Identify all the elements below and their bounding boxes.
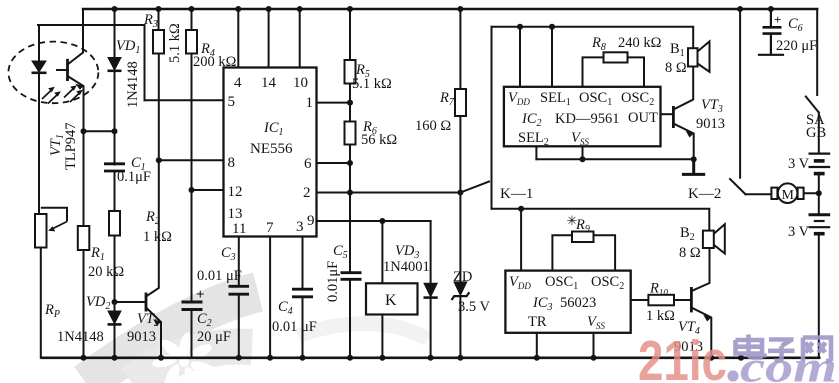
battery GB cell 2 [809, 215, 831, 234]
optocoupler light arrows [42, 85, 83, 103]
wire: top supply bus [83, 8, 817, 10]
wire: Vss ground line [536, 158, 693, 160]
wire: pin 3 / C4 column [302, 237, 304, 358]
node: emitter junction [81, 128, 87, 134]
transistor VT3 base bar [672, 106, 675, 128]
switch K-1 blade [460, 182, 489, 193]
wire: IC2 supply horizontal to B1 [492, 27, 694, 49]
svg-text:K—1: K—1 [500, 186, 533, 202]
svg-text:0.1μF: 0.1μF [117, 169, 151, 185]
svg-text:8: 8 [228, 155, 236, 171]
wire: IC2 SEL1 pin [551, 27, 553, 87]
wire: motor junction [804, 192, 819, 194]
wire: IC3 Vss pin to bus [593, 333, 595, 358]
wire: pin 12 horizontal [192, 189, 224, 191]
wire: K relay drop from pin 9 line [381, 221, 383, 283]
svg-text:3 V: 3 V [788, 156, 810, 172]
wire: VT3 collector to B1 [673, 67, 693, 110]
node: IC2 Vdd rail [517, 24, 523, 30]
node A: K-1 / R7 / ZD [457, 190, 463, 196]
watermark .com dot [727, 370, 738, 381]
svg-text:K: K [385, 292, 397, 309]
svg-text:14: 14 [261, 75, 277, 91]
wire: VD3 column [430, 221, 432, 358]
potentiometer Rp wiper [41, 208, 67, 222]
LED of optocoupler [32, 61, 47, 73]
wire: IC2 OUT to VT3 base [661, 113, 673, 115]
svg-text:TLP947: TLP947 [63, 122, 79, 170]
phototransistor emitter arrow [75, 84, 83, 90]
watermark dianziwang characters [736, 335, 832, 362]
wire: IC3 Vdd pin [520, 209, 522, 271]
wire: top-left horizontal (LED anode to pin5 wire) [38, 24, 145, 26]
svg-text:1N4148: 1N4148 [57, 329, 104, 345]
wire: pin 9 horizontal to VD3 [317, 220, 431, 222]
resistor R2 [109, 211, 120, 236]
svg-text:3: 3 [296, 219, 304, 235]
transistor VT4 base bar [690, 287, 693, 312]
wire: pin 7 column [269, 237, 271, 358]
wire: IC2 Vss pin [582, 146, 584, 159]
capacitor C6 plates [763, 27, 782, 33]
wire: pin 5 horizontal [145, 99, 224, 101]
node: Vss ground line [580, 156, 586, 162]
svg-text:1 kΩ: 1 kΩ [143, 229, 172, 245]
capacitor C2 plates [182, 302, 203, 310]
capacitor C4 plates [292, 289, 313, 297]
wire: VT4 collector to B2 [691, 248, 709, 291]
resistor R10 [648, 295, 674, 306]
svg-text:9013: 9013 [696, 116, 725, 132]
svg-text:5.1 kΩ: 5.1 kΩ [167, 23, 183, 63]
wire: C6 column [759, 9, 783, 55]
svg-text:10: 10 [293, 75, 308, 91]
wire: R1 column [83, 131, 85, 357]
svg-text:NE556: NE556 [250, 141, 293, 157]
svg-text:20 μF: 20 μF [197, 329, 231, 345]
wire: IC1 pin 4 top [237, 9, 239, 68]
svg-text:TR: TR [528, 314, 547, 330]
wire: VT2 emitter [146, 308, 161, 358]
node: pin2 [347, 190, 353, 196]
svg-text:2: 2 [303, 185, 311, 201]
svg-text:KD—9561: KD—9561 [555, 111, 619, 127]
wire: LED/Rp left column [39, 25, 41, 358]
svg-text:56 kΩ: 56 kΩ [361, 132, 397, 148]
wire: IC2/IC3 supply rail vertical [491, 27, 493, 209]
svg-text:4: 4 [234, 75, 242, 91]
IC1 pin numbers [228, 75, 315, 237]
wire: VT3 emitter to ground [673, 124, 693, 160]
node: pin12 / R4 / C2 [189, 187, 195, 193]
wire: R3 column [158, 9, 160, 160]
resistor R9 [572, 232, 594, 243]
wire: IC3 supply horizontal to B2 [492, 209, 710, 231]
wire: battery1 to motor junction [818, 175, 820, 214]
svg-text:8 Ω: 8 Ω [679, 245, 701, 261]
wire: IC2 Vdd pin [519, 27, 521, 87]
svg-text:7: 7 [266, 220, 274, 236]
wire: phototransistor emitter down [68, 76, 84, 131]
diode VD3 [424, 283, 438, 297]
node: VT2 base [112, 299, 118, 305]
svg-text:GB: GB [806, 125, 826, 141]
speaker B2 [703, 224, 725, 253]
wire: emitter junction horizontal [84, 130, 115, 132]
svg-text:+: + [774, 12, 781, 27]
svg-text:1N4148: 1N4148 [125, 61, 141, 108]
battery GB cell 1 [809, 154, 831, 174]
node: pin9 / K relay [379, 218, 385, 224]
wire: IC1 pin 10 top [299, 9, 301, 68]
capacitor C1 [104, 164, 125, 171]
wire: pin 8 horizontal [159, 159, 224, 161]
svg-text:6: 6 [304, 156, 312, 172]
svg-text:K—2: K—2 [688, 186, 721, 202]
wire: IC3 TR pin to bus [536, 333, 538, 358]
node: pin6 [347, 160, 353, 166]
wire: VT2 collector [146, 160, 159, 296]
svg-text:9013: 9013 [127, 329, 156, 345]
ground symbol [683, 159, 703, 174]
svg-text:com: com [740, 343, 837, 383]
wire: right rail top to SA switch [816, 9, 818, 95]
switch SA blade [806, 97, 819, 113]
svg-text:0.01 μF: 0.01 μF [197, 268, 242, 284]
wire: IC3 OSC1 pin and R9 loop [552, 235, 615, 270]
resistor R5 [345, 60, 356, 84]
phototransistor VT1 base bar [66, 59, 69, 81]
svg-text:ZD: ZD [453, 269, 472, 285]
resistor R7 [455, 89, 466, 116]
wire: pin 11 / C3 column [238, 237, 240, 358]
wire: phototransistor collector to top bus [68, 9, 84, 65]
wire: vertical down to pin 5 [144, 25, 146, 100]
node: pin8 / R3 / VT2 collector [156, 157, 162, 163]
transistor VT2 emitter arrow [153, 319, 161, 326]
resistor R3 [153, 30, 164, 54]
transistor VT4 emitter arrow [703, 315, 711, 322]
wire: R7 / ZD column [459, 9, 461, 358]
capacitor C3 plates [229, 286, 250, 294]
svg-text:3 V: 3 V [788, 224, 810, 240]
wire: pin 1 horizontal [317, 102, 351, 104]
relay K box [366, 283, 418, 314]
svg-text:12: 12 [228, 184, 243, 200]
wire: K-2 to motor [746, 193, 772, 195]
svg-text:5.1 kΩ: 5.1 kΩ [352, 76, 392, 92]
white petal mark in gray swoosh [151, 331, 217, 383]
svg-text:+: + [196, 287, 205, 303]
svg-text:M: M [782, 188, 795, 203]
resistor R6 [345, 122, 356, 145]
wire: R4 column [191, 9, 193, 358]
optocoupler VT1 dashed ellipse [8, 42, 98, 104]
wire: R5/R6/C5 column [349, 9, 351, 358]
motor M [771, 183, 803, 203]
svg-text:OUT: OUT [628, 110, 658, 126]
svg-text:160 Ω: 160 Ω [415, 118, 451, 134]
svg-text:9: 9 [307, 213, 315, 229]
node: pin1/R5/R6 [347, 100, 353, 106]
svg-text:1: 1 [306, 95, 314, 111]
wire: IC3 output to R10 [631, 299, 691, 301]
wire: bottom ground bus [42, 356, 819, 359]
svg-text:13: 13 [228, 206, 243, 222]
svg-text:3.5 V: 3.5 V [458, 299, 490, 315]
wire: IC2 SEL2 pin [535, 146, 537, 159]
diode VD2 [108, 311, 122, 324]
svg-text:21ic: 21ic [638, 329, 727, 383]
svg-text:0.01 μF: 0.01 μF [272, 319, 317, 335]
svg-text:240 kΩ: 240 kΩ [618, 35, 662, 51]
svg-text:11: 11 [232, 221, 246, 237]
wire: IC2 OSC1 pin and R8 loop [583, 57, 645, 86]
diode VD1 [108, 58, 122, 71]
resistor R8 [604, 52, 628, 62]
transistor VT3 emitter arrow [686, 131, 694, 138]
capacitor C5 plates [341, 273, 362, 280]
wire: right rail SA to battery 1 [818, 113, 820, 153]
wire: VT2 base [115, 301, 146, 303]
svg-text:220 μF: 220 μF [776, 38, 817, 54]
IC1 NE556 box [224, 68, 317, 237]
svg-text:0.01μF: 0.01μF [325, 261, 341, 302]
IC3 56023 box [505, 271, 630, 333]
switch K-2 blade [730, 179, 746, 194]
svg-text:1N4001: 1N4001 [383, 259, 430, 275]
wire: battery2 to bottom bus [818, 235, 820, 358]
wire: K-2 column from top bus [739, 9, 741, 178]
svg-text:5: 5 [228, 94, 236, 110]
node: top bus junctions [112, 6, 118, 12]
node: IC3 Vdd rail [518, 206, 524, 212]
wire: pin 6 horizontal [317, 162, 351, 164]
svg-text:1 kΩ: 1 kΩ [646, 308, 675, 324]
svg-text:200 kΩ: 200 kΩ [193, 54, 237, 70]
transistor VT2 base bar [145, 293, 148, 312]
zener ZD [452, 282, 470, 300]
svg-text:8 Ω: 8 Ω [665, 60, 687, 76]
resistor R4 [186, 30, 197, 54]
wire: K relay to ground bus [381, 315, 383, 358]
resistor R1 [78, 226, 90, 250]
svg-text:20 kΩ: 20 kΩ [88, 264, 124, 280]
IC2 KD-9561 box [504, 87, 661, 147]
wire: pin 2 horizontal to node A [317, 192, 461, 194]
speaker B1 [688, 41, 710, 71]
wire: VD1/C1/R2/VD2 column [114, 9, 116, 358]
gray watermark swoosh background [86, 292, 428, 383]
potentiometer Rp body [35, 214, 47, 248]
wire: VT4 emitter to bus [691, 308, 711, 358]
svg-text:56023: 56023 [560, 295, 596, 311]
node: motor / battery junction [816, 190, 822, 196]
node: bottom bus junctions [81, 355, 87, 361]
phototransistor base stub [56, 69, 68, 71]
wire: IC1 pin 14 top [268, 9, 270, 68]
